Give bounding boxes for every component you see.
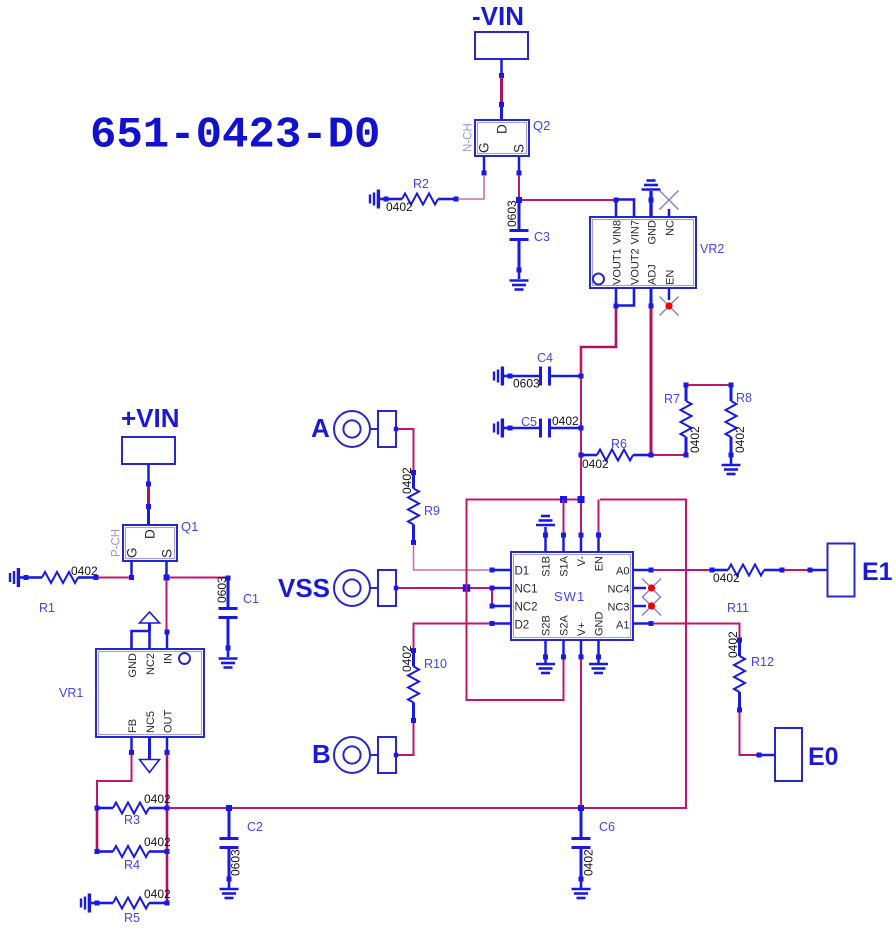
wire VIN8-VIN7 bracket	[616, 200, 634, 218]
wire S2A pin stub	[562, 640, 565, 657]
svg-text:0402: 0402	[726, 631, 740, 658]
svg-text:B: B	[312, 739, 331, 769]
wire ADJ to R6/R7	[650, 308, 653, 453]
svg-text:VOUT2: VOUT2	[630, 248, 642, 285]
ground at R1	[10, 568, 26, 587]
node C5/V- junction	[579, 426, 584, 431]
wire GND pin stub	[597, 640, 600, 663]
wire Q1 D pin stub	[147, 508, 150, 525]
svg-text:0402: 0402	[733, 426, 747, 453]
resistor R10	[408, 653, 419, 719]
resistor R6	[583, 450, 649, 461]
node D2 pin end	[490, 621, 495, 626]
node C6 top junction	[578, 805, 584, 811]
svg-text:E1: E1	[862, 558, 893, 586]
node Q1 S junction	[164, 575, 170, 581]
node C5 left end	[508, 426, 513, 431]
svg-text:R12: R12	[751, 655, 774, 669]
node C5 right end	[579, 426, 584, 431]
wire D2 pin stub	[492, 622, 511, 625]
wire C1 to ground	[227, 649, 230, 657]
capacitor C1	[219, 579, 238, 648]
node VSS loop junction	[463, 584, 471, 592]
transistor Q2 body	[475, 120, 529, 156]
node Q1 G pin end	[129, 575, 134, 580]
svg-text:NC1: NC1	[515, 584, 538, 596]
wire OUT down right side	[166, 754, 169, 901]
svg-text:A1: A1	[616, 620, 629, 632]
ground below C3	[510, 281, 529, 290]
node A1 pin end	[649, 621, 654, 626]
svg-text:R1: R1	[39, 601, 55, 615]
node S1A pin end	[561, 533, 566, 538]
svg-text:R7: R7	[664, 392, 680, 406]
port +VIN	[122, 437, 175, 464]
node V- junction	[578, 496, 585, 503]
svg-text:0402: 0402	[386, 200, 413, 214]
wire C6 to ground	[580, 880, 583, 888]
resistor R8	[726, 387, 737, 453]
svg-text:C1: C1	[243, 592, 259, 606]
wire R3 left to R4 left	[96, 810, 99, 850]
svg-text:V-: V-	[576, 556, 588, 567]
transistor Q1 body	[123, 525, 177, 561]
node C4/V- junction	[579, 374, 584, 379]
wire Q2 D pin stub	[500, 106, 503, 120]
wire V+ to rail	[580, 659, 582, 806]
svg-text:R3: R3	[124, 813, 140, 827]
wire R8 to ground	[730, 457, 733, 464]
wire R11 to E1	[784, 569, 808, 571]
svg-text:0402: 0402	[144, 835, 171, 849]
wire VR2 NC pin stub	[668, 209, 671, 217]
svg-text:R10: R10	[424, 657, 447, 671]
resistor R2	[388, 194, 454, 205]
wire EN pin stub	[597, 535, 600, 552]
port -VIN	[475, 32, 528, 59]
svg-text:NC2: NC2	[515, 602, 538, 614]
pin-1 marker of VR1	[179, 653, 190, 664]
pin-1 marker of VR2	[593, 274, 604, 285]
svg-text:R4: R4	[124, 858, 140, 872]
node Q1 D pin end	[146, 504, 151, 509]
resistor R1	[28, 572, 94, 583]
wire -VIN pin stub	[500, 59, 503, 74]
svg-text:D2: D2	[515, 620, 530, 632]
node S2A pin end	[561, 655, 566, 660]
wire -VIN to Q2 D	[500, 77, 503, 103]
node EN pin end	[596, 533, 601, 538]
ground at R2	[370, 190, 386, 209]
wire VOUT1-VOUT2 bracket	[616, 288, 634, 306]
wire R7 top to R8 top	[688, 384, 729, 386]
wire A0 to R11	[653, 569, 710, 571]
capacitor C2	[220, 809, 239, 878]
ground above S1B	[536, 516, 555, 525]
ground below C6	[572, 889, 591, 898]
wire VR1 NC5 pin stub	[148, 737, 151, 759]
wire NC2 pin stub	[492, 605, 511, 608]
svg-text:0402: 0402	[688, 426, 702, 453]
svg-text:R8: R8	[736, 391, 752, 405]
node C2 bottom end	[227, 877, 232, 882]
svg-text:Q1: Q1	[181, 519, 198, 534]
node V- pin end	[579, 533, 584, 538]
no-connect X at VR2 NC	[660, 191, 679, 210]
svg-text:V+: V+	[576, 622, 588, 636]
wire +VIN pin stub	[147, 464, 150, 482]
wire VR1 OUT pin stub	[166, 737, 169, 751]
port E1	[828, 544, 855, 597]
wire C3 to ground	[518, 271, 521, 279]
node S1A junction	[560, 496, 567, 503]
wire S1A pin stub	[562, 535, 565, 552]
regulator VR2 body	[590, 217, 696, 288]
svg-text:0402: 0402	[400, 645, 414, 672]
wire FB to R3/R4	[97, 754, 132, 806]
node NC1 pin end	[490, 586, 495, 591]
wire Q1 S to VR1 IN	[166, 580, 168, 630]
wire R12 to E0	[740, 712, 758, 755]
power arrow below NC5	[140, 760, 160, 773]
svg-text:G: G	[477, 142, 492, 153]
resistor R7	[681, 387, 692, 453]
svg-text:GND: GND	[647, 220, 659, 245]
ground above VR2 GND	[642, 181, 661, 190]
node R2 left end	[384, 197, 389, 202]
switch SW1 body	[511, 552, 633, 640]
wire VSS loop	[467, 500, 582, 701]
svg-text:D: D	[143, 529, 158, 539]
wire S1A drop	[563, 500, 565, 534]
wire NC2 to arrow	[148, 623, 151, 631]
resistor R4	[99, 846, 165, 857]
svg-text:R6: R6	[611, 437, 627, 451]
wire NC4 pin stub	[633, 587, 646, 590]
wire V+ pin stub	[580, 640, 583, 657]
resistor R5	[99, 898, 165, 909]
node VR2 ADJ pin end	[649, 304, 654, 309]
wire A to R9	[398, 429, 414, 470]
svg-text:0402: 0402	[144, 792, 171, 806]
wire R10 to D2	[414, 624, 491, 649]
svg-text:N-CH: N-CH	[463, 123, 475, 152]
svg-text:0402: 0402	[713, 571, 740, 585]
svg-text:NC2: NC2	[145, 653, 157, 675]
ground below C2	[220, 889, 239, 898]
wire V+ rail	[169, 500, 686, 809]
capacitor C3	[510, 201, 529, 270]
node S1B pin end	[543, 533, 548, 538]
node +VIN pin end	[146, 482, 151, 487]
no-connect X at NC3	[642, 597, 661, 616]
wire +VIN to Q1 D	[147, 486, 150, 504]
capacitor C6	[572, 809, 591, 878]
svg-text:VSS: VSS	[278, 573, 330, 603]
svg-text:VOUT1: VOUT1	[612, 248, 624, 285]
svg-text:D: D	[495, 124, 510, 134]
svg-text:C4: C4	[537, 351, 553, 365]
svg-text:C5: C5	[521, 415, 537, 429]
ground below SW1 GND	[589, 664, 608, 673]
svg-text:A: A	[311, 413, 330, 443]
node E0 pin end	[757, 753, 762, 758]
svg-text:0603: 0603	[229, 849, 243, 876]
node -VIN pin end	[499, 73, 504, 78]
svg-text:G: G	[125, 547, 140, 558]
node NC2 pin end	[490, 604, 495, 609]
svg-text:VIN7: VIN7	[630, 220, 642, 244]
svg-text:EN: EN	[665, 270, 677, 285]
wire S1B pin stub	[544, 527, 547, 552]
ground below R8	[722, 465, 741, 474]
ground at R5	[81, 894, 97, 913]
svg-text:S2A: S2A	[559, 615, 571, 636]
wire VSS to NC1	[398, 587, 490, 589]
resistor R12	[734, 642, 745, 708]
svg-text:S1B: S1B	[541, 556, 553, 577]
wire C2 to ground	[228, 880, 231, 888]
svg-text:R2: R2	[413, 177, 429, 191]
node R6/ADJ junction	[649, 453, 654, 458]
svg-text:651-0423-D0: 651-0423-D0	[90, 111, 380, 161]
svg-text:S: S	[512, 144, 527, 153]
node R1 left end	[24, 575, 29, 580]
wire Q1 S pin stub	[165, 561, 168, 576]
resistor R9	[408, 475, 419, 541]
svg-text:0402: 0402	[144, 887, 171, 901]
wire A1 to R12	[653, 624, 740, 639]
wire Q2 S pin stub	[518, 156, 521, 171]
ground below C1	[219, 659, 238, 668]
wire VR2 GND pin stub	[649, 191, 652, 217]
wire NC1-NC2 strap	[491, 590, 493, 604]
node Q2 G pin end	[482, 171, 487, 176]
svg-text:-VIN: -VIN	[472, 1, 524, 31]
wire B to R10	[398, 722, 414, 755]
svg-text:NC3: NC3	[607, 602, 629, 614]
ground at C5	[494, 419, 510, 438]
svg-text:E0: E0	[808, 743, 839, 771]
svg-text:S2B: S2B	[541, 615, 553, 636]
node VR1 OUT pin end	[165, 750, 170, 755]
capacitor C4	[511, 367, 580, 386]
svg-text:VR1: VR1	[59, 686, 83, 700]
svg-text:0603: 0603	[505, 200, 519, 227]
node GND pin end	[596, 655, 601, 660]
connector B	[334, 737, 370, 773]
wire A1 pin stub	[633, 622, 651, 625]
wire VR1 GND-NC2 bracket	[132, 631, 150, 649]
regulator VR1 body	[96, 649, 204, 737]
svg-text:SW1: SW1	[554, 589, 585, 604]
node VR2 GND pin	[649, 198, 654, 203]
svg-text:0402: 0402	[582, 457, 609, 471]
wire A0 pin stub	[633, 569, 651, 572]
wire R9 to D1	[414, 545, 491, 571]
wire Q1 S to C1	[169, 577, 226, 579]
svg-text:S: S	[160, 549, 175, 558]
svg-text:NC5: NC5	[145, 711, 157, 733]
node Q2 D pin end	[499, 102, 504, 107]
wire R6 to R7	[653, 454, 684, 456]
wire V- vertical rail	[580, 347, 582, 533]
svg-text:VR2: VR2	[700, 242, 724, 256]
svg-text:NC: NC	[665, 220, 677, 236]
node junction S/C3	[516, 197, 522, 203]
svg-text:0603: 0603	[215, 576, 229, 603]
svg-text:OUT: OUT	[163, 710, 175, 734]
wire S2B pin stub	[544, 640, 547, 663]
ground at C4	[494, 367, 510, 386]
node VR1 FB pin end	[129, 750, 134, 755]
wire Q2 S to VIN8	[519, 175, 614, 200]
wire Q2 G to R2	[458, 175, 484, 199]
svg-text:FB: FB	[127, 719, 139, 733]
wire NC1 pin stub	[492, 587, 511, 590]
svg-text:R11: R11	[727, 601, 749, 615]
wire NC3 pin stub	[633, 605, 646, 608]
power arrow above NC2	[140, 612, 160, 623]
node C4 right end	[579, 374, 584, 379]
wire VR1 IN pin stub	[166, 634, 169, 649]
node A0 pin end	[649, 568, 654, 573]
svg-text:IN: IN	[163, 653, 175, 664]
svg-text:R9: R9	[424, 504, 440, 518]
no-connect X at NC4	[642, 579, 661, 598]
node C2 top junction	[226, 805, 232, 811]
svg-text:ADJ: ADJ	[647, 264, 659, 285]
svg-text:NC4: NC4	[607, 584, 629, 596]
svg-text:D1: D1	[515, 566, 530, 578]
wire E0 pin stub	[761, 754, 775, 757]
wire Q2 G pin stub	[483, 156, 486, 171]
svg-text:P-CH: P-CH	[111, 529, 123, 557]
no-connect X at VR2 EN	[660, 297, 679, 316]
node V+ pin end	[579, 655, 584, 660]
svg-text:+VIN: +VIN	[121, 403, 180, 433]
resistor R11	[714, 565, 780, 576]
svg-text:GND: GND	[127, 653, 139, 678]
ground below S2B	[536, 664, 555, 673]
connector A	[334, 411, 370, 447]
wire Q1 G pin stub	[130, 561, 133, 576]
node C1 bottom end	[226, 646, 231, 651]
resistor R3	[99, 803, 165, 814]
connector VSS	[334, 570, 370, 606]
svg-text:R5: R5	[124, 911, 140, 925]
svg-text:A0: A0	[616, 566, 629, 578]
wire VR2 EN pin stub	[668, 288, 671, 300]
wire EN drop	[598, 500, 600, 534]
svg-text:GND: GND	[594, 612, 606, 637]
node C1 top end	[226, 576, 231, 581]
svg-text:EN: EN	[594, 556, 606, 571]
wire V- pin stub	[580, 535, 583, 552]
wire R1 to Q1 G	[98, 577, 129, 579]
svg-text:S1A: S1A	[559, 555, 571, 576]
node D1 pin end	[490, 568, 495, 573]
svg-text:0603: 0603	[513, 377, 540, 391]
svg-text:C6: C6	[599, 820, 615, 834]
svg-text:C2: C2	[247, 820, 263, 834]
node C4 left end	[508, 374, 513, 379]
capacitor C5	[511, 419, 580, 438]
svg-text:C3: C3	[534, 230, 550, 244]
wire VR1 FB pin stub	[130, 737, 133, 751]
node E1 pin end	[808, 568, 813, 573]
svg-text:0402: 0402	[552, 414, 579, 428]
wire E1 pin stub	[812, 569, 828, 572]
svg-text:0402: 0402	[400, 467, 414, 494]
node S2B pin end	[543, 655, 548, 660]
node C3 bottom end	[517, 268, 522, 273]
node VOUT junction	[614, 304, 619, 309]
wire VR2 ADJ pin stub	[650, 288, 653, 304]
node VR1 IN pin end	[165, 630, 170, 635]
svg-text:0402: 0402	[582, 849, 596, 876]
svg-text:VIN8: VIN8	[612, 220, 624, 244]
wire D1 pin stub	[492, 569, 511, 572]
svg-text:0402: 0402	[71, 564, 98, 578]
node C6 bottom end	[579, 877, 584, 882]
node VIN8 junction	[614, 198, 619, 203]
port E0	[775, 728, 802, 781]
wire VOUT to V- rail	[581, 308, 616, 373]
node Q2 S pin end	[517, 171, 522, 176]
svg-text:Q2: Q2	[533, 118, 550, 133]
